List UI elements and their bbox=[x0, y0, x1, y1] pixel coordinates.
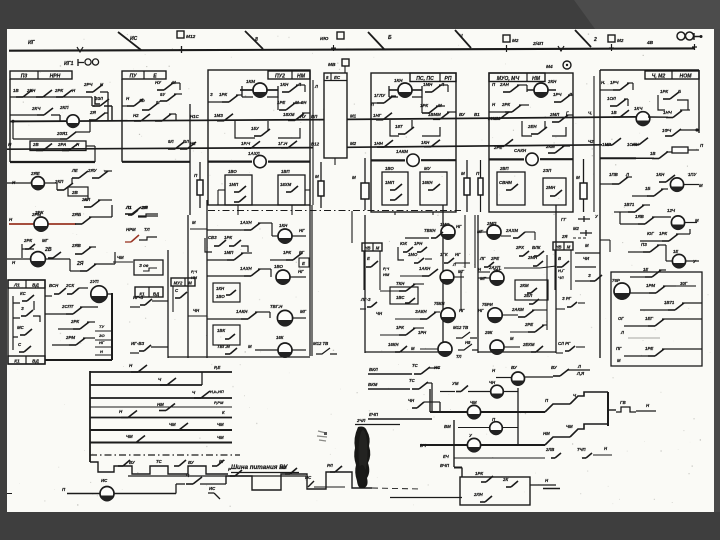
svg-text:1ГЛУ: 1ГЛУ bbox=[374, 93, 386, 98]
svg-text:18ХМ: 18ХМ bbox=[283, 112, 295, 117]
svg-text:МС: МС bbox=[17, 325, 25, 330]
svg-text:ЕС: ЕС bbox=[334, 75, 341, 80]
svg-text:ИЮ: ИЮ bbox=[320, 36, 328, 42]
gap verticals between I and J bbox=[464, 215, 466, 268]
svg-text:КС: КС bbox=[20, 291, 27, 296]
svg-text:1ВК: 1ВК bbox=[217, 328, 225, 333]
svg-text:1КН: 1КН bbox=[394, 78, 403, 83]
svg-text:ЗАКН: ЗАКН bbox=[415, 309, 428, 314]
svg-text:ТС: ТС bbox=[412, 363, 419, 368]
svg-text:НОМ: НОМ bbox=[680, 73, 693, 79]
svg-text:ПУ: ПУ bbox=[129, 73, 137, 79]
svg-text:Е: Е bbox=[153, 73, 157, 79]
svg-text:З: З bbox=[210, 92, 213, 97]
svg-text:1РК: 1РК bbox=[475, 471, 483, 476]
ГВ step and Н bbox=[608, 409, 616, 411]
svg-text:2В: 2В bbox=[44, 247, 52, 253]
МУ2|М header box bbox=[171, 278, 195, 286]
block C header ПУ2|НМ bbox=[268, 71, 310, 79]
block B borders bbox=[121, 79, 123, 162]
svg-text:К1: К1 bbox=[14, 358, 20, 363]
svg-text:4В: 4В bbox=[646, 40, 654, 46]
svg-text:2РК: 2РК bbox=[501, 102, 510, 107]
box В|ЕС bbox=[324, 73, 347, 158]
ladder row5 bbox=[90, 417, 232, 419]
svg-text:М: М bbox=[576, 175, 580, 180]
svg-text:ЧИ: ЧИ bbox=[583, 256, 590, 261]
svg-text:ПС, ПС: ПС, ПС bbox=[416, 76, 434, 82]
svg-text:2РЕ: 2РЕ bbox=[524, 322, 533, 327]
svg-text:2ЕЛ: 2ЕЛ bbox=[523, 293, 533, 298]
svg-text:12Ч: 12Ч bbox=[667, 208, 676, 213]
svg-text:ЮК: ЮК bbox=[400, 241, 407, 246]
block E outline bbox=[371, 73, 456, 212]
svg-text:2Я: 2Я bbox=[561, 234, 568, 239]
ladder row2 bbox=[90, 384, 202, 386]
disconnect М2 a bbox=[503, 35, 510, 42]
svg-text:ЗО: ЗО bbox=[99, 333, 105, 338]
block C sub-box 1ВП/18ХМ bbox=[278, 175, 305, 205]
row Н 2В 2РА box bbox=[30, 141, 86, 151]
block B header ПУ|Е bbox=[122, 71, 166, 79]
svg-text:З: З bbox=[21, 306, 24, 311]
svg-text:ВСН: ВСН bbox=[49, 283, 59, 288]
svg-text:ТС: ТС bbox=[409, 378, 416, 383]
svg-text:Н8: Н8 bbox=[465, 340, 471, 345]
svg-text:Л1: Л1 bbox=[13, 282, 20, 287]
box 1РК 2К bottom bbox=[460, 477, 530, 505]
svg-text:30Г: 30Г bbox=[680, 281, 688, 286]
ladder row1 bbox=[90, 371, 202, 373]
svg-text:20Я1: 20Я1 bbox=[56, 131, 68, 136]
contact 2РА on rail2 bbox=[62, 150, 69, 152]
svg-text:М1: М1 bbox=[350, 114, 357, 119]
svg-text:НМ: НМ bbox=[157, 402, 164, 407]
svg-text:1МЗ: 1МЗ bbox=[214, 113, 223, 118]
svg-text:1КН: 1КН bbox=[279, 223, 288, 228]
svg-text:1Б: 1Б bbox=[645, 186, 650, 191]
svg-text:ГВ: ГВ bbox=[620, 400, 626, 405]
wire block C right double edge bbox=[312, 80, 314, 205]
svg-text:М2: М2 bbox=[617, 38, 624, 43]
disconnect М12 on bus bbox=[177, 31, 184, 38]
svg-text:1РК: 1РК bbox=[219, 92, 227, 97]
return bus thick segments bbox=[10, 161, 95, 163]
rail Н1 upper bbox=[10, 120, 324, 122]
svg-text:2РА: 2РА bbox=[57, 142, 66, 147]
svg-text:ИС: ИС bbox=[305, 475, 312, 480]
svg-text:75РИ: 75РИ bbox=[482, 302, 494, 307]
svg-text:ВЛ: ВЛ bbox=[183, 139, 189, 144]
svg-text:САКН: САКН bbox=[514, 148, 527, 153]
ladder left bus bbox=[89, 371, 91, 462]
boxed Е label bbox=[299, 258, 309, 267]
svg-text:НГ: НГ bbox=[455, 252, 461, 257]
svg-text:ЧМ: ЧМ bbox=[169, 422, 176, 427]
svg-text:ЧН: ЧН bbox=[376, 311, 383, 316]
coil 1ПУ bbox=[670, 178, 683, 191]
svg-text:1РЧ: 1РЧ bbox=[553, 92, 562, 97]
block F header МУО,МЧ|НМ bbox=[489, 73, 545, 82]
svg-text:НМ: НМ bbox=[191, 275, 198, 280]
svg-text:НГ: НГ bbox=[478, 308, 484, 313]
block F sub-box 2МН bbox=[543, 178, 566, 205]
svg-text:2В: 2В bbox=[71, 190, 79, 195]
ВД footer К1|ВД bbox=[8, 356, 45, 364]
svg-text:1КЧ: 1КЧ bbox=[634, 106, 643, 111]
svg-text:ВУ: ВУ bbox=[459, 112, 466, 117]
coil I bottom bbox=[438, 342, 452, 356]
svg-text:М: М bbox=[585, 243, 589, 248]
svg-text:1В: 1В bbox=[611, 110, 617, 115]
contact 2В on rail2 bbox=[36, 150, 43, 152]
block C outline bbox=[208, 70, 310, 205]
svg-text:Н.: Н. bbox=[601, 80, 605, 85]
isolator slash Б bbox=[368, 32, 384, 49]
svg-text:ЛГ: ЛГ bbox=[479, 256, 486, 261]
svg-text:2ЛВ: 2ЛВ bbox=[545, 447, 554, 452]
svg-text:1РМ: 1РМ bbox=[646, 283, 655, 288]
svg-text:15У: 15У bbox=[251, 126, 260, 131]
svg-text:2РК: 2РК bbox=[23, 238, 32, 243]
svg-text:2ЯУ: 2ЯУ bbox=[87, 168, 98, 173]
svg-text:1КН: 1КН bbox=[280, 82, 289, 87]
svg-text:П3: П3 bbox=[21, 73, 28, 79]
svg-text:1ФЧ: 1ФЧ bbox=[662, 128, 672, 133]
svg-text:НРМ: НРМ bbox=[126, 227, 136, 232]
svg-text:2АКМ: 2АКМ bbox=[511, 307, 524, 312]
central sub-box 1ВК bbox=[213, 325, 240, 345]
svg-text:Н,Г: Н,Г bbox=[558, 268, 565, 273]
block E header ПС,ПС|РП bbox=[410, 73, 456, 82]
mid line under shina bbox=[128, 475, 306, 477]
contact 9Л rail drop bbox=[155, 120, 162, 122]
block F sub-box СВНМ bbox=[497, 172, 525, 205]
svg-text:ТС: ТС bbox=[156, 459, 163, 464]
svg-text:ИС: ИС bbox=[101, 478, 108, 483]
svg-text:ЛЕ: ЛЕ bbox=[71, 168, 78, 173]
svg-text:НУ: НУ bbox=[155, 80, 162, 85]
central block borders bbox=[167, 250, 169, 358]
svg-text:Н2: Н2 bbox=[133, 113, 139, 118]
svg-text:2Я: 2Я bbox=[141, 205, 149, 210]
svg-text:2Я: 2Я bbox=[89, 110, 97, 115]
svg-text:1АХН: 1АХН bbox=[240, 266, 253, 271]
svg-text:2ЯВ: 2ЯВ bbox=[71, 243, 82, 248]
svg-text:НРН: НРН bbox=[50, 73, 61, 79]
svg-text:1Г.Н: 1Г.Н bbox=[278, 141, 288, 146]
svg-text:М: М bbox=[352, 175, 356, 180]
svg-text:2Я: 2Я bbox=[76, 261, 84, 267]
svg-text:1ВС: 1ВС bbox=[396, 295, 405, 300]
block G header Ч,М2|НОМ bbox=[645, 71, 699, 79]
svg-text:НГ: НГ bbox=[299, 228, 305, 233]
svg-text:ИС: ИС bbox=[209, 486, 216, 491]
svg-text:НГ: НГ bbox=[456, 224, 462, 229]
svg-text:ЧМ: ЧМ bbox=[470, 400, 477, 405]
svg-text:2УП: 2УП bbox=[89, 279, 99, 284]
svg-text:2РМ: 2РМ bbox=[65, 335, 75, 340]
svg-text:1ЕГ: 1ЕГ bbox=[645, 316, 653, 321]
wire row1 to row2 drop bbox=[107, 92, 109, 121]
block J borders bbox=[477, 215, 479, 353]
svg-text:В1: В1 bbox=[474, 112, 480, 117]
svg-text:ЧМ: ЧМ bbox=[280, 465, 287, 470]
svg-text:2КН: 2КН bbox=[547, 79, 557, 84]
svg-text:Н1С: Н1С bbox=[190, 114, 200, 119]
svg-text:16К: 16К bbox=[276, 335, 284, 340]
svg-text:ТКН: ТКН bbox=[396, 281, 405, 286]
block A row1 wire bbox=[10, 96, 92, 98]
central sub-box 1КН bbox=[213, 283, 240, 302]
svg-text:М2: М2 bbox=[350, 141, 357, 146]
svg-text:2СК: 2СК bbox=[65, 283, 74, 288]
svg-text:Б: Б bbox=[388, 35, 392, 41]
svg-text:СВНМ: СВНМ bbox=[499, 180, 512, 185]
svg-text:1АКН: 1АКН bbox=[236, 309, 248, 314]
svg-text:1ПВ: 1ПВ bbox=[609, 172, 619, 177]
svg-text:1МП: 1МП bbox=[229, 182, 239, 187]
svg-text:2К: 2К bbox=[502, 477, 508, 482]
svg-text:2КМ: 2КМ bbox=[545, 144, 555, 149]
svg-text:1РК: 1РК bbox=[659, 231, 667, 236]
svg-text:2КН: 2КН bbox=[26, 88, 36, 93]
svg-text:1РЧ: 1РЧ bbox=[610, 80, 619, 85]
svg-text:ВКМ: ВКМ bbox=[368, 382, 378, 387]
wire vertical x352 stub bbox=[351, 211, 353, 243]
block G lower sub-box bbox=[611, 272, 702, 366]
svg-text:Р: Р bbox=[228, 467, 231, 472]
svg-text:2МН: 2МН bbox=[545, 185, 556, 190]
dash-dot separator line bbox=[208, 210, 461, 212]
svg-text:2КП: 2КП bbox=[59, 105, 69, 110]
svg-text:З ое: З ое bbox=[139, 263, 149, 268]
ladder row6 bbox=[90, 429, 232, 431]
svg-text:НГ: НГ bbox=[298, 269, 304, 274]
svg-text:МГ: МГ bbox=[300, 309, 307, 314]
svg-text:1РК: 1РК bbox=[396, 325, 404, 330]
svg-text:НМ: НМ bbox=[543, 431, 550, 436]
svg-text:В12: В12 bbox=[311, 142, 320, 147]
svg-text:1КН: 1КН bbox=[656, 172, 665, 177]
svg-text:ЛГ-З: ЛГ-З bbox=[360, 297, 371, 302]
svg-text:1РН: 1РН bbox=[418, 330, 427, 335]
staircase steps block A bbox=[95, 96, 112, 121]
svg-text:ИС: ИС bbox=[130, 36, 138, 42]
box 1ВС bbox=[390, 287, 418, 304]
svg-text:СВЗ: СВЗ bbox=[208, 235, 217, 240]
contact Лb2 bbox=[142, 109, 149, 111]
right riser bbox=[607, 392, 609, 426]
chain tail dashes bbox=[372, 488, 420, 489]
block F outline bbox=[489, 73, 573, 212]
svg-text:М: М bbox=[510, 336, 514, 341]
wire vertical x312 bbox=[311, 205, 313, 356]
svg-text:1ВО: 1ВО bbox=[274, 264, 284, 269]
svg-text:ЧМ: ЧМ bbox=[117, 255, 124, 260]
svg-text:ГГ: ГГ bbox=[561, 217, 567, 222]
svg-text:1ВП: 1ВП bbox=[281, 169, 290, 174]
chain wire bbox=[114, 493, 176, 495]
svg-text:ЧЛ: ЧЛ bbox=[558, 275, 564, 280]
svg-text:НМ: НМ bbox=[297, 73, 306, 79]
svg-text:Р,РМ: Р,РМ bbox=[214, 400, 224, 405]
svg-text:Е: Е bbox=[367, 256, 370, 261]
svg-text:2ЕКМ: 2ЕКМ bbox=[522, 342, 535, 347]
svg-text:1КН: 1КН bbox=[216, 286, 225, 291]
top-right lighter corner panel bbox=[574, 0, 720, 29]
svg-text:ЧМ: ЧМ bbox=[566, 424, 573, 429]
svg-text:1РН: 1РН bbox=[414, 241, 423, 246]
НВ|М header box left bbox=[362, 243, 382, 251]
svg-text:Н: Н bbox=[100, 349, 103, 354]
svg-text:2В: 2В bbox=[32, 142, 39, 147]
svg-text:1ВО: 1ВО bbox=[385, 166, 394, 171]
svg-text:Л1: Л1 bbox=[125, 205, 132, 210]
svg-text:16КН: 16КН bbox=[422, 180, 433, 185]
svg-text:ИГ: ИГ bbox=[28, 40, 36, 46]
block G borders bbox=[600, 69, 699, 71]
svg-text:ТЛ: ТЛ bbox=[456, 354, 462, 359]
ВД right bus bbox=[111, 293, 113, 360]
disconnect М2 b bbox=[608, 35, 615, 42]
svg-text:1В71: 1В71 bbox=[664, 300, 675, 305]
bus tick 1 bbox=[77, 47, 83, 52]
svg-text:2ВП: 2ВП bbox=[499, 166, 509, 171]
svg-text:16КН: 16КН bbox=[388, 342, 399, 347]
svg-text:М: М bbox=[617, 358, 621, 363]
svg-text:М: М bbox=[188, 280, 192, 285]
svg-text:1АКМ: 1АКМ bbox=[396, 149, 408, 154]
svg-text:2РЧ: 2РЧ bbox=[83, 82, 93, 87]
svg-text:2/4П: 2/4П bbox=[532, 41, 544, 47]
svg-text:2РК: 2РК bbox=[70, 319, 79, 324]
ladder row7 bbox=[90, 441, 232, 443]
svg-text:МУ: МУ bbox=[424, 166, 432, 171]
coil bracket bbox=[242, 86, 278, 97]
svg-text:1МП: 1МП bbox=[385, 180, 395, 185]
svg-text:МГ: МГ bbox=[42, 238, 48, 243]
svg-text:ВМ: ВМ bbox=[444, 424, 451, 429]
svg-text:1ВММ: 1ВММ bbox=[428, 112, 441, 117]
svg-text:ТВКН: ТВКН bbox=[424, 228, 436, 233]
svg-text:М: М bbox=[315, 174, 319, 179]
svg-text:1АКН: 1АКН bbox=[419, 266, 431, 271]
wire block E bottom drops bbox=[394, 212, 396, 215]
svg-text:1КМ: 1КМ bbox=[246, 79, 255, 84]
svg-text:2РК: 2РК bbox=[54, 88, 63, 93]
rail Н2 lower bbox=[7, 148, 313, 150]
svg-text:Л: Л bbox=[314, 84, 318, 89]
svg-text:М4: М4 bbox=[546, 64, 553, 70]
svg-text:29К: 29К bbox=[484, 330, 493, 335]
svg-text:ВД: ВД bbox=[153, 291, 160, 296]
box 2В lower bbox=[68, 187, 88, 196]
svg-text:Л: Л bbox=[620, 330, 624, 335]
svg-text:1АХН: 1АХН bbox=[240, 220, 253, 225]
svg-text:ЧМ: ЧМ bbox=[217, 422, 224, 427]
chain steps bbox=[226, 472, 372, 490]
svg-text:1ЯВ: 1ЯВ bbox=[635, 214, 645, 219]
svg-text:М: М bbox=[376, 245, 380, 250]
bus ИГ main line bbox=[9, 48, 695, 50]
svg-text:В: В bbox=[558, 256, 561, 261]
svg-text:ПУ2: ПУ2 bbox=[275, 73, 285, 79]
svg-text:М: М bbox=[567, 244, 571, 249]
right edge strip bbox=[714, 29, 720, 512]
svg-text:2СПТ: 2СПТ bbox=[61, 304, 74, 309]
svg-text:2ЗП: 2ЗП bbox=[542, 168, 552, 173]
block A left border wire bbox=[9, 79, 11, 162]
isolator slash 2 bbox=[575, 30, 591, 47]
svg-text:1В: 1В bbox=[13, 88, 19, 93]
svg-text:ИГ-ВЗ: ИГ-ВЗ bbox=[131, 341, 144, 346]
svg-text:1ОЛ: 1ОЛ bbox=[607, 96, 617, 101]
wire ИС chain left bbox=[7, 493, 12, 495]
svg-text:18ХМ: 18ХМ bbox=[280, 182, 292, 187]
ВД header Л1|ВД bbox=[8, 280, 45, 288]
svg-text:ВД: ВД bbox=[32, 358, 39, 363]
svg-text:75КН: 75КН bbox=[434, 301, 445, 306]
svg-text:М2: М2 bbox=[573, 226, 579, 231]
svg-text:К1: К1 bbox=[139, 291, 145, 296]
svg-text:З: З bbox=[588, 273, 591, 278]
svg-text:1ВО: 1ВО bbox=[228, 169, 237, 174]
block E sub-box 1ВО/1МП bbox=[382, 172, 408, 205]
block C inner drop wires bbox=[218, 189, 225, 191]
svg-text:ТУ: ТУ bbox=[99, 324, 104, 329]
svg-text:М2: М2 bbox=[512, 38, 519, 43]
svg-text:2РХ: 2РХ bbox=[515, 245, 525, 250]
svg-text:ВД: ВД bbox=[32, 282, 39, 287]
isolator slash Ч bbox=[455, 30, 471, 48]
svg-text:2КЧ: 2КЧ bbox=[31, 106, 41, 111]
svg-text:Ч2: Ч2 bbox=[588, 139, 594, 144]
svg-text:1Е: 1Е bbox=[673, 249, 678, 254]
svg-text:ИГ1: ИГ1 bbox=[64, 61, 74, 67]
svg-text:Ч, М2: Ч, М2 bbox=[652, 73, 666, 79]
svg-text:2ЧЛ: 2ЧЛ bbox=[356, 418, 366, 423]
svg-text:Р,Е: Р,Е bbox=[214, 365, 221, 370]
svg-text:1РК: 1РК bbox=[660, 89, 668, 94]
svg-text:МВ: МВ bbox=[328, 62, 336, 68]
НВ|М header box right bbox=[553, 242, 573, 250]
svg-text:Л: Л bbox=[577, 364, 581, 369]
svg-text:ТЧП: ТЧП bbox=[577, 447, 587, 452]
svg-text:2РЕ: 2РЕ bbox=[490, 256, 499, 261]
svg-text:2ЕН: 2ЕН bbox=[527, 124, 537, 129]
ink blob bbox=[354, 427, 370, 489]
junction dot rail1 left bbox=[11, 120, 14, 123]
svg-text:2ВГ: 2ВГ bbox=[492, 268, 501, 273]
svg-text:1В: 1В bbox=[650, 151, 656, 156]
paper smudge mark bbox=[317, 431, 327, 441]
svg-text:1ГК: 1ГК bbox=[440, 252, 448, 257]
coil I top bbox=[440, 270, 454, 284]
svg-text:ВЛК: ВЛК bbox=[532, 245, 541, 250]
svg-text:СЛ РГ: СЛ РГ bbox=[558, 341, 571, 346]
svg-text:К: К bbox=[222, 410, 225, 415]
svg-text:М12 ТВ: М12 ТВ bbox=[313, 341, 328, 346]
svg-text:1НН: 1НН bbox=[374, 141, 384, 146]
stub Н bottom right bbox=[543, 488, 560, 490]
svg-text:1РК: 1РК bbox=[224, 235, 232, 240]
svg-text:1МО: 1МО bbox=[408, 252, 418, 257]
svg-text:1МН: 1МН bbox=[423, 82, 433, 87]
svg-text:НМ: НМ bbox=[383, 272, 390, 277]
svg-text:2АХМ: 2АХМ bbox=[505, 228, 518, 233]
isolator slash ИС bbox=[118, 32, 141, 50]
